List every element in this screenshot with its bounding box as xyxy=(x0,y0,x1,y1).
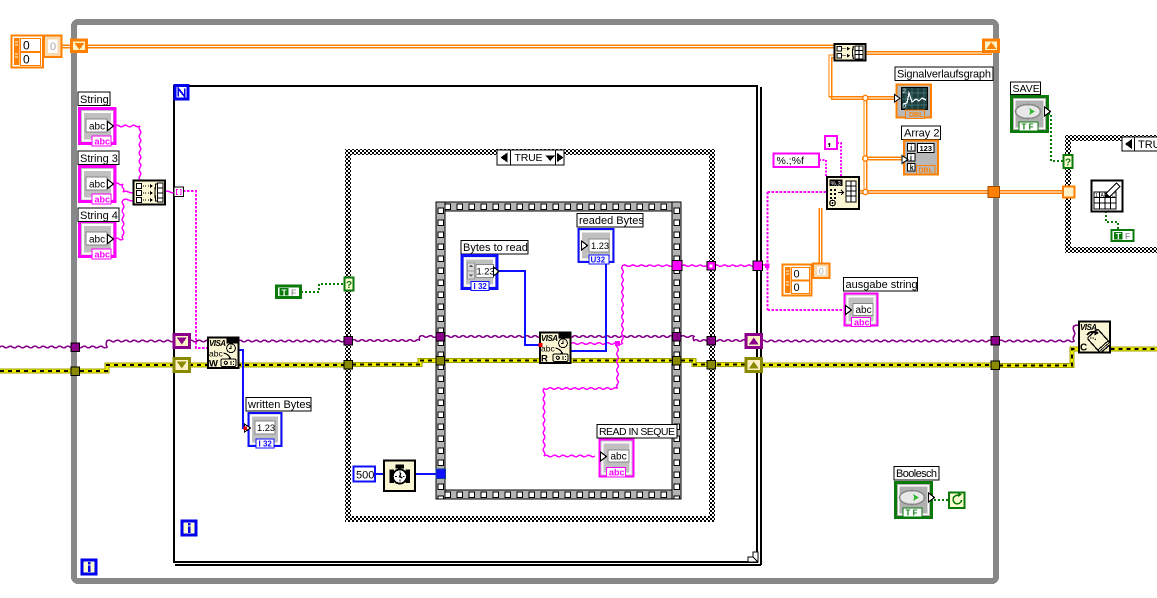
svg-text:DBL: DBL xyxy=(919,168,934,175)
svg-text:k: k xyxy=(910,165,914,172)
tunnel array [] inner loop left xyxy=(174,187,184,197)
wire pink string array into for loop to VISA write xyxy=(183,191,208,348)
label Bytes to read xyxy=(461,241,528,255)
wire purple VISA resource main run xyxy=(0,325,1080,348)
VISA write node xyxy=(208,338,239,370)
svg-text:R: R xyxy=(541,354,548,365)
label String xyxy=(78,92,110,106)
wire pink right of inner loop vertical xyxy=(768,192,845,310)
svg-text:SAVE: SAVE xyxy=(1013,83,1040,95)
wire green Boolesch to condition terminal xyxy=(934,499,949,501)
sequence structure border xyxy=(436,202,681,499)
svg-text:0: 0 xyxy=(794,282,800,294)
numeric array constant lower right xyxy=(783,264,830,296)
numeric array constant top-left xyxy=(12,36,62,68)
wire orange build array U2 output to right shift register xyxy=(864,52,992,55)
svg-text:Array 2: Array 2 xyxy=(904,128,939,140)
svg-text:%.;%f: %.;%f xyxy=(777,155,805,167)
shift register olive inner right xyxy=(746,359,762,372)
case structure 2 border (right edge) xyxy=(1068,138,1157,250)
wire error cluster olive main run xyxy=(0,349,1157,371)
wire blue VISA read to readed bytes xyxy=(570,262,606,351)
svg-text:abc: abc xyxy=(856,305,872,316)
write to spreadsheet file node xyxy=(1092,181,1123,212)
svg-text:?: ? xyxy=(1065,158,1071,169)
svg-text:T F: T F xyxy=(1022,123,1034,132)
svg-text:TRUE: TRUE xyxy=(1138,139,1157,151)
svg-text:i: i xyxy=(910,145,912,152)
tunnel pink case1 right (hollow) xyxy=(707,262,716,271)
string constant comma xyxy=(825,133,837,149)
wire orange vertical riser x865 xyxy=(864,97,867,194)
tunnel olive sequence right xyxy=(673,357,682,366)
wire green SAVE to case 2 selector xyxy=(1048,114,1064,161)
svg-text:W: W xyxy=(209,359,218,370)
svg-text:VISA: VISA xyxy=(209,339,226,348)
outer while loop border xyxy=(74,22,996,581)
tunnel orange case2 left xyxy=(1063,187,1075,198)
svg-text:String 3: String 3 xyxy=(80,153,118,165)
tunnel olive case1 right xyxy=(707,361,716,370)
junction orange riser dots xyxy=(863,95,868,194)
svg-text:abc: abc xyxy=(854,317,870,327)
svg-text:F: F xyxy=(291,288,296,298)
tunnel purple sequence left xyxy=(436,333,445,342)
svg-text:0: 0 xyxy=(819,267,824,277)
build array node top right xyxy=(835,44,866,61)
svg-text:abc: abc xyxy=(209,349,223,359)
SAVE boolean control xyxy=(1012,97,1051,132)
svg-text:I 32: I 32 xyxy=(474,282,488,291)
shift register orange outer right xyxy=(984,40,999,52)
tunnel olive outer left xyxy=(71,367,80,376)
svg-text:abc: abc xyxy=(609,468,625,478)
svg-text:ausgabe string: ausgabe string xyxy=(846,279,918,291)
svg-text:READ IN SEQUE: READ IN SEQUE xyxy=(599,426,675,438)
wire orange spreadsheet node output to outer tunnel xyxy=(859,191,993,194)
for loop i terminal xyxy=(182,521,196,535)
svg-text:abc: abc xyxy=(89,122,105,133)
tunnel pink sequence right xyxy=(672,261,682,271)
svg-text:,: , xyxy=(828,133,832,148)
wire orange left shift register to build array U2 xyxy=(86,45,836,48)
ausgabe string indicator xyxy=(845,294,878,328)
readed Bytes indicator xyxy=(579,229,614,265)
svg-text:1.23: 1.23 xyxy=(591,241,609,251)
svg-text:I 32: I 32 xyxy=(259,440,273,449)
svg-text:Signalverlaufsgraph: Signalverlaufsgraph xyxy=(897,69,991,81)
tunnel olive outer right xyxy=(991,361,1000,370)
Bytes to read control xyxy=(462,256,499,292)
svg-text:1.23: 1.23 xyxy=(257,423,275,433)
label ausgabe string xyxy=(844,278,918,292)
wire blue VISA write to written bytes xyxy=(238,350,248,428)
READ IN SEQUE indicator xyxy=(600,440,634,478)
shift register olive inner left xyxy=(174,359,190,372)
shift register purple inner right xyxy=(746,335,762,348)
label String 4 xyxy=(78,208,119,222)
wire pink format string constant to node xyxy=(819,143,841,177)
tunnel orange outer right xyxy=(988,187,1000,198)
wire pink VISA read data output branches xyxy=(115,125,768,457)
boolean T constant case2 xyxy=(1112,230,1134,241)
wire orange tunnel to case 2 xyxy=(999,191,1066,194)
build array strings node xyxy=(134,181,166,205)
svg-text:abc: abc xyxy=(95,250,111,260)
svg-text:1.23: 1.23 xyxy=(477,267,495,277)
string control String 4 xyxy=(80,222,116,260)
inner for loop border xyxy=(174,86,761,565)
wire blue 500 to wait timer xyxy=(375,473,384,475)
spreadsheet string to array node xyxy=(827,177,859,209)
svg-text:T F: T F xyxy=(906,509,918,518)
svg-text:j: j xyxy=(909,155,912,162)
label Signalverlaufsgraph xyxy=(895,67,993,81)
svg-text:?: ? xyxy=(346,280,352,291)
VISA close node xyxy=(1079,322,1111,354)
svg-text:T: T xyxy=(282,288,288,298)
shift register purple inner left xyxy=(174,335,190,348)
for loop N terminal xyxy=(175,86,188,100)
tunnel purple case1 left xyxy=(344,337,353,346)
tunnel olive case1 left xyxy=(344,361,353,370)
shift register orange outer left xyxy=(72,40,87,52)
wire orange build array U2 second input riser xyxy=(829,55,865,99)
wire blue wait timer to sequence tunnel xyxy=(415,473,438,475)
svg-text:0: 0 xyxy=(23,39,30,53)
svg-text:0: 0 xyxy=(794,269,800,281)
boolean T constant case1 xyxy=(277,286,301,298)
label written Bytes xyxy=(246,398,311,412)
svg-text:%.3: %.3 xyxy=(831,181,842,187)
case structure 1 border xyxy=(348,152,712,519)
tunnel purple sequence right xyxy=(673,333,682,342)
wait ms timer node xyxy=(384,461,415,492)
numeric constant 500 xyxy=(354,467,376,482)
string control String 3 xyxy=(80,167,116,205)
svg-text:abc: abc xyxy=(95,137,111,147)
Array 2 terminal xyxy=(902,141,938,175)
label Boolesch xyxy=(894,467,939,481)
label Array 2 xyxy=(902,126,941,140)
tunnel green ? case2 selector xyxy=(1064,155,1073,169)
wire blue bytes to read to VISA read xyxy=(497,271,540,345)
tunnel purple outer right xyxy=(991,337,1000,346)
svg-text:1: 1 xyxy=(1095,193,1098,199)
svg-text:readed Bytes: readed Bytes xyxy=(579,215,644,227)
junction pink dots xyxy=(615,263,770,346)
svg-text:F: F xyxy=(1125,231,1130,241)
written Bytes indicator xyxy=(244,413,282,449)
wire green boolean T const to case selector xyxy=(301,284,346,292)
label readed Bytes xyxy=(577,214,644,228)
VISA read node xyxy=(539,333,571,365)
inner loop resize corner xyxy=(748,552,758,562)
wire orange array top-left const to left shift register xyxy=(61,45,72,48)
svg-text:Bytes to read: Bytes to read xyxy=(463,242,528,254)
svg-text:0: 0 xyxy=(23,53,30,67)
svg-text:C: C xyxy=(1080,343,1087,354)
while loop i terminal xyxy=(82,560,96,574)
svg-text:TRUE: TRUE xyxy=(515,152,543,164)
while loop condition terminal xyxy=(949,493,965,509)
svg-text:String 4: String 4 xyxy=(80,210,118,222)
svg-text:String: String xyxy=(80,94,109,106)
svg-text:0: 0 xyxy=(50,41,56,53)
svg-text:Boolesch: Boolesch xyxy=(896,468,937,480)
label String 3 xyxy=(78,151,119,165)
svg-text:abc: abc xyxy=(95,195,111,205)
tunnel purple case1 right xyxy=(707,337,716,346)
svg-text:DBL: DBL xyxy=(909,112,924,119)
tunnel purple outer left xyxy=(71,343,80,352)
svg-text:abc: abc xyxy=(89,180,105,191)
tunnel blue sequence left xyxy=(436,469,446,479)
wire orange riser to graph terminal xyxy=(864,97,897,100)
svg-text:500: 500 xyxy=(356,470,374,482)
Boolesch boolean control xyxy=(896,483,935,518)
tunnel olive sequence left xyxy=(436,357,445,366)
label SAVE xyxy=(1011,82,1041,95)
wire green write file node to T const xyxy=(1106,211,1118,230)
waveform graph terminal xyxy=(895,85,932,120)
svg-text:T: T xyxy=(1116,231,1122,241)
tunnel pink inner loop right xyxy=(753,261,763,271)
string control String xyxy=(80,109,116,147)
wire orange riser to Array 2 terminal xyxy=(864,157,904,160)
label READ IN SEQUE xyxy=(597,425,677,439)
svg-text:abc: abc xyxy=(541,344,555,354)
svg-text:abc: abc xyxy=(611,452,627,463)
case2 selector label TRUE (clipped) xyxy=(1122,137,1157,151)
svg-text:U32: U32 xyxy=(591,256,606,265)
tunnel green ? case1 selector xyxy=(345,278,354,292)
case1 selector label TRUE xyxy=(497,150,564,165)
wire orange spreadsheet node type input from array const xyxy=(819,208,822,264)
svg-text:written Bytes: written Bytes xyxy=(247,399,311,411)
svg-text:abc: abc xyxy=(89,235,105,246)
string constant format xyxy=(774,154,820,168)
svg-text:123: 123 xyxy=(920,144,933,153)
svg-text:VISA: VISA xyxy=(541,334,558,343)
